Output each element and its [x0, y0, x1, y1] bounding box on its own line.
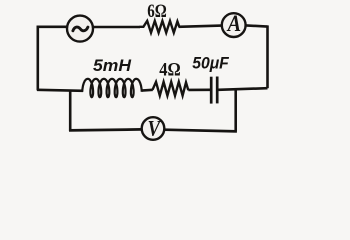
wire right vertical: [266, 25, 269, 88]
wire left vertical: [36, 26, 39, 91]
wire middle branch left: [37, 90, 83, 91]
wire top middle (source to resistor): [93, 26, 140, 29]
wire ammeter to right corner: [246, 25, 268, 26]
ammeter A circle: [222, 13, 246, 37]
wire inductor to resistor 4ohm: [142, 89, 153, 92]
svg-text:A: A: [226, 11, 241, 36]
svg-text:6Ω: 6Ω: [147, 1, 167, 22]
AC source circle: [67, 16, 93, 42]
svg-text:V: V: [148, 116, 162, 141]
wire top-left horizontal: [37, 25, 67, 28]
wire capacitor to right vertical: [219, 88, 268, 90]
resistor R 6ohm zigzag: [140, 21, 180, 33]
wire bottom left (to voltmeter): [69, 129, 142, 130]
voltmeter V circle: [142, 117, 165, 140]
svg-text:50μF: 50μF: [192, 54, 229, 73]
svg-text:5mH: 5mH: [93, 56, 132, 75]
AC source tilde symbol: [73, 27, 88, 31]
inductor L 5mH coil: [82, 79, 141, 97]
capacitor C right plate: [216, 77, 219, 104]
wire bottom right (voltmeter to corner): [165, 130, 237, 132]
wire left drop vertical: [69, 90, 72, 131]
wire right drop vertical: [234, 89, 237, 132]
wire resistor to capacitor: [188, 89, 210, 92]
svg-text:4Ω: 4Ω: [159, 60, 181, 81]
capacitor C left plate: [210, 77, 213, 104]
wire resistor to ammeter: [179, 26, 222, 27]
resistor R 4ohm zigzag: [153, 82, 189, 96]
